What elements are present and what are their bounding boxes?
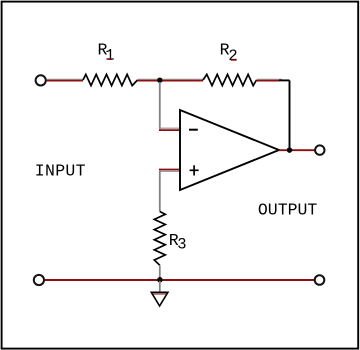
input terminal (top-left circle) bbox=[36, 75, 46, 85]
svg-text:OUTPUT: OUTPUT bbox=[258, 201, 318, 220]
ground bbox=[151, 292, 168, 306]
plus symbol bbox=[190, 169, 199, 171]
wire: feedback vertical down to output node bbox=[289, 80, 291, 149]
wire: node to inverting input (gray vertical) bbox=[159, 82, 161, 129]
wire: stem to ground symbol (gray) bbox=[159, 281, 161, 292]
node B (output junction dot) bbox=[287, 147, 293, 153]
wire: bottom ground rail bbox=[45, 279, 314, 281]
bottom rail terminal right bbox=[315, 275, 325, 285]
resistor R2 bbox=[203, 74, 257, 85]
node A (junction dot R1/R2/inverting input) bbox=[157, 77, 163, 83]
svg-text:2: 2 bbox=[228, 47, 237, 65]
op-amp U1 triangle bbox=[180, 110, 279, 190]
wire: plus input down to R3 (gray vertical) bbox=[159, 170, 161, 212]
svg-text:3: 3 bbox=[177, 235, 186, 253]
minus symbol bbox=[189, 129, 198, 131]
wire: input terminal to R1 bbox=[47, 78, 83, 80]
node C (rail/ground junction dot) bbox=[157, 277, 163, 283]
bottom rail terminal left bbox=[34, 275, 44, 285]
wire: op-amp output to output node bbox=[279, 149, 315, 151]
wire: horizontal into minus input bbox=[159, 127, 180, 129]
resistor R3 (vertical) bbox=[154, 212, 165, 266]
wire: horizontal into plus input bbox=[159, 169, 180, 171]
wire: R2 to top-right corner bbox=[257, 78, 283, 80]
svg-text:1: 1 bbox=[105, 47, 114, 65]
resistor R1 bbox=[83, 74, 138, 85]
wire: R3 bottom to ground rail (gray vertical) bbox=[159, 265, 161, 279]
wire: R1 to R2 through node bbox=[138, 78, 204, 80]
svg-text:INPUT: INPUT bbox=[35, 161, 86, 180]
output terminal (right circle) bbox=[315, 145, 324, 154]
